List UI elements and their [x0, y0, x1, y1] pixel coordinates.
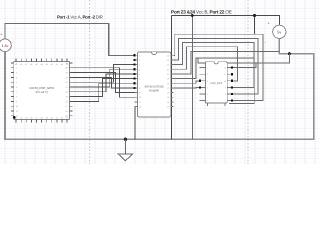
voltage source V2 5v — [265, 21, 286, 45]
svg-text:10: 10 — [224, 80, 226, 83]
wire 5v rail: Port 23/24 VccB, Port 22 OE — [172, 16, 280, 26]
svg-text:12: 12 — [224, 67, 226, 70]
svg-text:7: 7 — [225, 100, 226, 103]
svg-text:3: 3 — [207, 80, 208, 83]
svg-text:LCD_DP4: LCD_DP4 — [210, 82, 222, 85]
net label Port 23/24 VccB, Port 22 OE — [171, 9, 232, 14]
svg-text:1.8v: 1.8v — [2, 44, 9, 48]
svg-text:6: 6 — [207, 100, 208, 103]
wire B-bus over-the-top (U2 right pins to U3 right pins) — [174, 34, 280, 100]
IC U1 C6678_DSP_GPIO (QFP) — [11, 59, 72, 123]
wire from 5v junction across y=62.9 — [198, 54, 289, 63]
svg-text:1: 1 — [207, 67, 208, 70]
wire A-bus (8 lines U1 right pins to U2 pins 3-10, woven) — [72, 65, 134, 102]
svg-text:SN74LVC8T245: SN74LVC8T245 — [144, 86, 164, 89]
svg-text:C6678_DSP_GPIO: C6678_DSP_GPIO — [29, 86, 55, 90]
wire U2 pin to U3 left pin 3 — [174, 81, 200, 83]
junction on 5v rail at x=254.5 — [253, 14, 256, 17]
svg-text:4: 4 — [207, 86, 208, 89]
wire V2 negative stub — [279, 38, 289, 53]
svg-text:8: 8 — [225, 93, 226, 96]
svg-text:NVQHR: NVQHR — [149, 90, 159, 93]
svg-text:9: 9 — [225, 86, 226, 89]
IC U2 SN74LVC8T245 — [133, 52, 173, 117]
wire U2 GND pin to bottom rail — [134, 107, 136, 140]
svg-text:5v: 5v — [277, 30, 281, 34]
wire U2 pin B6 long route at y=58 — [174, 58, 255, 104]
net label Port-1 VccA / Port-2 DIR — [57, 15, 103, 20]
wire 1.8v rail: Port-1 VccA / Port-2 DIR from V1(+) to U2 pins 1,2 — [5, 24, 134, 56]
wire GND/return loop: V1(-) to V2(-) via bottom and right rails — [5, 52, 314, 140]
wire rail drop at x=171.5 — [171, 16, 173, 140]
svg-text:5: 5 — [207, 93, 208, 96]
wire rail drop at x=254.5 — [254, 16, 256, 35]
wire branch down to U3 right pin 12 — [233, 63, 255, 68]
svg-text:Port -1 Vcc A, Port -2 DIR: Port -1 Vcc A, Port -2 DIR — [57, 15, 103, 20]
svg-text:Port 23 &24 Vcc B, Port 22 OE: Port 23 &24 Vcc B, Port 22 OE — [171, 9, 232, 14]
svg-text:2: 2 — [207, 73, 208, 76]
IC U3 LCD_DP4 — [199, 62, 234, 106]
svg-text:(Pin ref C): (Pin ref C) — [36, 91, 48, 94]
wire rail drop at x=192.3 — [191, 16, 193, 140]
svg-text:11: 11 — [224, 73, 226, 76]
junction at ground tap — [124, 138, 127, 141]
junction on 5v rail at x=192.3 — [191, 14, 194, 17]
ground — [118, 139, 133, 160]
wire U2 pin to U3 left pin 4 — [174, 86, 200, 89]
voltage source V1 1.8v — [0, 32, 11, 54]
junction at V2 negative tee — [288, 52, 291, 55]
